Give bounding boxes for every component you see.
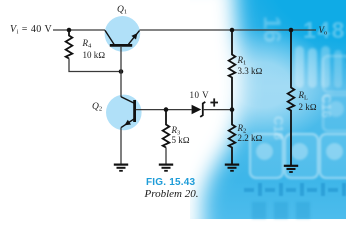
zener diode D1 10V <box>192 102 206 117</box>
label: resistor R1 designator <box>238 56 247 65</box>
label: transistor Q2 <box>92 103 102 113</box>
transistor Q1 symbol (NPN, base down, collector left, emitter right) <box>105 30 140 45</box>
background texture: vertical pale text C18 <box>270 116 286 156</box>
label: transistor Q1 <box>117 6 127 16</box>
ground: Q2 emitter <box>114 165 128 171</box>
wire: input rail from Vi to Q1 collector <box>53 29 105 31</box>
Q1 base bar <box>110 44 132 47</box>
resistor R3 5k <box>163 110 170 148</box>
node: junction of zener, R1 and R2 <box>230 107 235 112</box>
node: junction of output rail and RL <box>289 28 294 33</box>
resistor RL 2k <box>288 30 295 165</box>
wire: R3 bottom lead <box>165 148 167 164</box>
label: resistor R3 designator <box>172 126 181 135</box>
background texture: key bottoms under dash row <box>252 202 266 219</box>
label: resistor R2 value 2.2 k <box>238 134 263 143</box>
wire: R4 bottom lead down to cross wire <box>69 59 121 72</box>
background photo: blue circuit-board field <box>190 0 346 219</box>
background texture: dark vertical text right edge <box>343 49 346 89</box>
label: polarity plus at zener cathode <box>210 98 218 106</box>
transistor Q2 body circle <box>106 95 142 131</box>
label: resistor R1 value 3.3 k <box>238 67 263 76</box>
wire: Q1 base lead down <box>120 47 122 97</box>
wire: Q2 emitter down to ground <box>120 128 122 164</box>
transistor Q1 body circle <box>105 16 141 52</box>
label: node Vi = 40 V <box>10 25 52 35</box>
label: resistor R3 value 5 k <box>172 136 190 145</box>
Q2 collector diagonal <box>121 97 135 104</box>
Q1 collector diagonal <box>105 30 114 44</box>
resistor R1 3.3k <box>229 30 236 110</box>
ground: R3 <box>159 165 173 171</box>
ground: RL <box>284 166 298 172</box>
background texture: pale vertical streaks upper right <box>295 46 304 88</box>
label: resistor RL designator <box>299 91 308 100</box>
label: zener value 10 V <box>190 91 210 100</box>
node: junction of output rail and R1 <box>230 28 235 33</box>
Q2 emitter diagonal with arrow <box>121 119 135 128</box>
label: figure number FIG. 15.43 <box>146 178 195 188</box>
transistor Q2 symbol (NPN, base right, collector up, emitter down) <box>121 97 135 128</box>
background texture: big pale digits top-right <box>303 17 346 44</box>
ground: R2 <box>225 165 239 171</box>
background texture: pale rotated digits top-left of photo <box>247 16 285 48</box>
label: resistor R4 value 10 k <box>83 51 106 60</box>
Q2 base bar <box>133 100 136 122</box>
label: node Vo <box>319 26 328 35</box>
node: junction of input rail and R4 <box>67 28 72 33</box>
label: caption Problem 20. <box>145 189 199 200</box>
label: resistor R2 designator <box>238 124 247 133</box>
wire: Q2 base to zener anode <box>136 109 192 111</box>
wire: output rail from Q1 emitter to Vo <box>140 29 317 31</box>
background texture: vertical pale text C16 <box>318 94 334 134</box>
resistor R2 2.2k <box>229 110 236 164</box>
resistor R4 10k <box>66 30 73 59</box>
node: junction of base wire and R3 <box>164 107 169 112</box>
wire: zener cathode to R1/R2 node <box>203 109 232 111</box>
Q1 emitter diagonal with arrow <box>129 31 140 45</box>
node: junction of R4 wire and Q1-base/Q2-collector line <box>119 69 124 74</box>
background texture: keypad keys bottom right <box>249 133 284 179</box>
background texture: dark dash-dot row <box>244 183 346 197</box>
label: resistor RL value 2 k <box>299 103 317 112</box>
label: resistor R4 designator <box>83 39 92 48</box>
